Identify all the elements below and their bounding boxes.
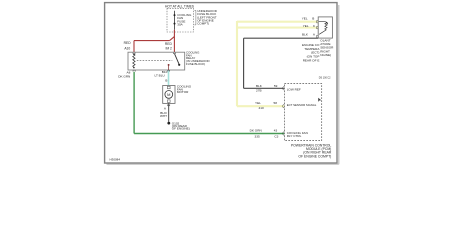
svg-text:MOTOR: MOTOR [177,90,189,94]
ground G102 [167,122,170,125]
motor terminal square bottom [167,100,170,103]
svg-text:58: 58 [274,101,278,105]
svg-text:IM 2: IM 2 [165,46,172,50]
relay switch arm [174,53,179,64]
motor terminal marker [168,104,170,106]
wire BLK sensor to PCM [244,38,319,88]
fuse block dashed box [167,9,194,32]
svg-text:YEL: YEL [303,24,309,28]
svg-text:B: B [165,78,167,82]
leader bracket [194,10,196,25]
wire BLK/WHT motor to ground [168,103,170,122]
fuse F (cooling fan fuse 30A) [174,11,176,30]
wire RED from fuse to relay [134,30,174,52]
relay contact [168,64,170,66]
svg-text:YEL: YEL [255,101,261,105]
label UNDERHOOD FUSE BLOCK [197,9,218,25]
sensor terminal brackets [317,21,318,23]
fuse value label [177,13,192,27]
svg-text:YEL: YEL [302,16,308,20]
svg-text:A10: A10 [124,46,130,50]
relay terminal markers bottom [133,70,135,71]
svg-text:335: 335 [255,134,260,138]
label POWERTRAIN CONTROL MODULE (PCM) [291,144,332,159]
wire YEL sensor to PCM [237,21,318,106]
label COOLING FAN MOTOR [177,85,192,95]
svg-text:B: B [312,16,314,20]
svg-text:27B: 27B [256,88,262,92]
relay link dashed [137,60,173,62]
svg-text:C3: C3 [274,134,278,138]
relay K (cooling fan relay) box [128,52,185,70]
motor circle [165,91,173,99]
label ENGINE COOLANT TEMPERATURE (ECT) SENSOR part 2 [320,38,334,57]
svg-text:DK GRN: DK GRN [250,129,262,133]
svg-text:BLK: BLK [302,32,309,36]
sensor thermistor [319,22,327,35]
svg-text:NGINE): NGINE) [320,53,331,57]
svg-text:REAR OF E: REAR OF E [303,59,320,63]
svg-text:59: 59 [274,84,278,88]
svg-text:DK GRN: DK GRN [118,75,130,79]
svg-text:410: 410 [259,106,264,110]
svg-text:H30084: H30084 [110,157,121,161]
svg-text:43: 43 [274,129,278,133]
relay terminal markers top [133,52,135,54]
svg-text:WHT: WHT [160,114,167,118]
label COOLING FAN RELAY [186,51,210,66]
svg-text:HOT AT ALL TIMES: HOT AT ALL TIMES [165,4,195,8]
svg-text:COMPT): COMPT) [197,22,209,26]
svg-text:FUSE BLOCK): FUSE BLOCK) [186,62,205,66]
relay coil [133,54,135,67]
wire DK GRN relay to PCM [134,72,284,134]
svg-text:OF ENGINE): OF ENGINE) [172,127,190,131]
svg-text:30A: 30A [177,23,183,27]
border frame [105,3,337,163]
PCM pin arcs [283,87,285,91]
motor M1 (cooling fan motor) box [163,86,175,104]
svg-text:OF ENGINE COMPT): OF ENGINE COMPT) [298,154,331,158]
svg-text:BLK: BLK [256,84,263,88]
svg-text:M: M [167,92,170,97]
svg-text:ECT SENSOR SIGNAL: ECT SENSOR SIGNAL [287,103,317,107]
svg-text:RED: RED [165,42,173,46]
PCM dashed box [284,84,321,141]
svg-text:DS 100 C2: DS 100 C2 [319,76,331,79]
svg-text:LT BLU: LT BLU [154,73,164,77]
label ENGINE COOLANT TEMPERATURE (ECT) SENSOR part 1 [302,43,320,62]
sensor B1 (ECT sensor) box [318,17,332,38]
wire LT BLU relay to motor [168,71,170,86]
svg-text:RED: RED [124,41,132,45]
svg-text:RLY CTRL: RLY CTRL [287,134,302,138]
border frame shadow [338,5,340,164]
cursor artifact [318,98,321,102]
svg-text:LOW REF: LOW REF [287,88,301,92]
motor terminal square top [167,86,170,89]
